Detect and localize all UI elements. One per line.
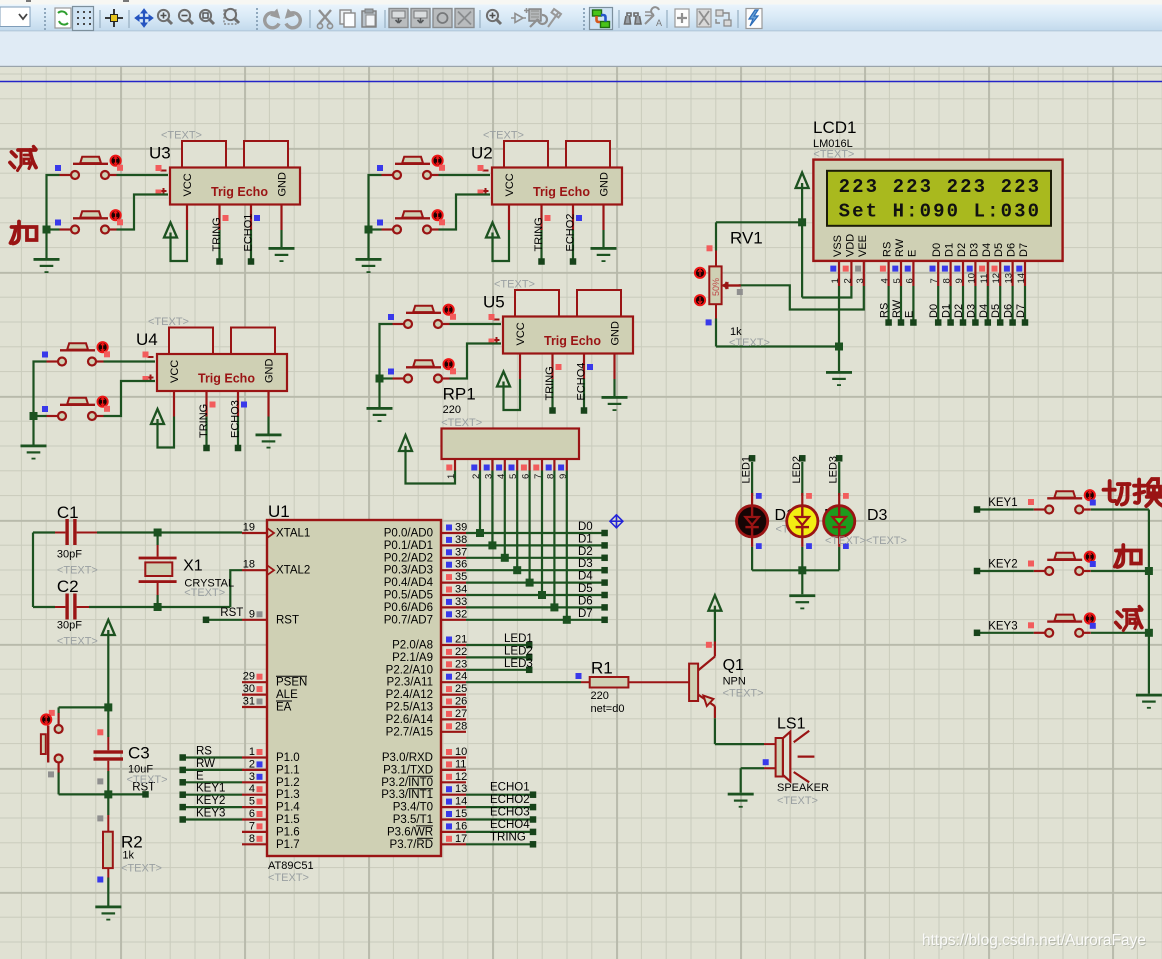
svg-text:P2.5/A13: P2.5/A13 [386, 702, 433, 714]
svg-text:5: 5 [892, 278, 903, 283]
svg-text:28: 28 [455, 720, 467, 732]
svg-text:D2: D2 [953, 304, 965, 318]
svg-text:30pF: 30pF [57, 549, 82, 561]
svg-text:LED2: LED2 [791, 456, 803, 484]
svg-text:11: 11 [979, 274, 990, 284]
svg-text:223 223 223 223: 223 223 223 223 [839, 176, 1042, 198]
svg-text:D5: D5 [990, 304, 1002, 318]
svg-text:TRING: TRING [544, 366, 556, 400]
svg-text:ECHO4: ECHO4 [490, 819, 530, 831]
svg-text:13: 13 [455, 783, 467, 795]
svg-text:PSEN: PSEN [276, 677, 307, 689]
svg-text:P3.6/WR: P3.6/WR [387, 826, 433, 838]
svg-text:RST: RST [220, 607, 243, 619]
svg-text:D6: D6 [1003, 304, 1015, 318]
svg-text:LED1: LED1 [504, 633, 533, 645]
svg-text:KEY1: KEY1 [196, 783, 225, 795]
svg-text:D4: D4 [978, 304, 990, 318]
svg-text:19: 19 [243, 522, 255, 534]
svg-text:29: 29 [243, 671, 255, 683]
svg-text:10: 10 [966, 273, 977, 284]
svg-text:Trig Echo: Trig Echo [198, 372, 255, 386]
svg-text:Trig Echo: Trig Echo [533, 185, 590, 199]
svg-text:D1: D1 [944, 243, 956, 257]
svg-text:E: E [906, 250, 918, 257]
svg-text:TRING: TRING [198, 404, 210, 438]
svg-text:1k: 1k [730, 326, 742, 338]
svg-text:6: 6 [904, 278, 915, 283]
svg-text:KEY2: KEY2 [196, 795, 225, 807]
svg-text:4: 4 [880, 278, 891, 283]
svg-text:P1.5: P1.5 [276, 814, 300, 826]
svg-text:RS: RS [882, 242, 894, 257]
svg-text:RST: RST [276, 614, 299, 626]
svg-text:R2: R2 [121, 833, 143, 852]
svg-text:R1: R1 [591, 659, 613, 678]
svg-text:P3.1/TXD: P3.1/TXD [383, 764, 433, 776]
svg-text:VCC: VCC [515, 322, 527, 345]
svg-text:P2.0/A8: P2.0/A8 [392, 640, 433, 652]
svg-text:2: 2 [249, 758, 255, 770]
svg-text:D6: D6 [578, 595, 593, 607]
svg-text:U2: U2 [471, 144, 493, 163]
svg-text:P0.5/AD5: P0.5/AD5 [384, 590, 433, 602]
svg-text:P0.7/AD7: P0.7/AD7 [384, 614, 433, 626]
svg-text:<TEXT>: <TEXT> [483, 130, 524, 142]
svg-text:9: 9 [954, 278, 965, 283]
svg-text:P1.1: P1.1 [276, 764, 300, 776]
svg-text:RW: RW [891, 299, 903, 318]
svg-text:RS: RS [879, 303, 891, 318]
svg-text:9: 9 [249, 608, 255, 620]
svg-text:RW: RW [894, 238, 906, 257]
svg-text:P1.2: P1.2 [276, 777, 300, 789]
svg-text:GND: GND [610, 321, 622, 346]
svg-text:4: 4 [249, 783, 255, 795]
svg-text:A: A [656, 18, 662, 28]
svg-text:net=d0: net=d0 [591, 703, 625, 715]
svg-text:VCC: VCC [169, 360, 181, 383]
svg-text:<TEXT>: <TEXT> [777, 795, 818, 807]
svg-text:D2: D2 [578, 546, 593, 558]
svg-text:D2: D2 [956, 243, 968, 257]
svg-text:P1.3: P1.3 [276, 789, 300, 801]
svg-text:26: 26 [455, 696, 467, 708]
svg-text:37: 37 [455, 546, 467, 558]
svg-text:25: 25 [455, 683, 467, 695]
svg-text:VEE: VEE [857, 235, 869, 257]
svg-text:<TEXT>: <TEXT> [161, 130, 202, 142]
svg-text:50%: 50% [711, 278, 721, 296]
svg-text:3: 3 [855, 278, 866, 283]
svg-text:XTAL1: XTAL1 [276, 528, 310, 540]
svg-text:23: 23 [455, 658, 467, 670]
svg-text:RW: RW [196, 758, 215, 770]
svg-text:ECHO3: ECHO3 [230, 400, 242, 438]
svg-text:P2.2/A10: P2.2/A10 [386, 664, 433, 676]
svg-text:VCC: VCC [182, 173, 194, 196]
svg-text:P0.3/AD3: P0.3/AD3 [384, 565, 433, 577]
svg-text:P1.6: P1.6 [276, 826, 300, 838]
svg-text:EA: EA [276, 702, 292, 714]
svg-text:220: 220 [591, 690, 609, 702]
svg-text:P1.4: P1.4 [276, 802, 300, 814]
svg-text:30: 30 [243, 683, 255, 695]
svg-text:<TEXT>: <TEXT> [441, 417, 482, 429]
svg-text:39: 39 [455, 522, 467, 534]
svg-text:LED3: LED3 [828, 456, 840, 484]
svg-text:D6: D6 [1006, 243, 1018, 257]
svg-text:36: 36 [455, 559, 467, 571]
svg-text:8: 8 [942, 278, 953, 283]
svg-text:X1: X1 [183, 558, 203, 575]
svg-text:P0.0/AD0: P0.0/AD0 [384, 528, 433, 540]
svg-text:GND: GND [599, 172, 611, 197]
svg-text:P0.6/AD6: P0.6/AD6 [384, 602, 433, 614]
svg-text:TRING: TRING [490, 831, 526, 843]
svg-text:P3.5/T1: P3.5/T1 [393, 814, 433, 826]
svg-text:P2.3/A11: P2.3/A11 [387, 677, 433, 689]
svg-text:LCD1: LCD1 [813, 118, 856, 137]
svg-text:5: 5 [249, 796, 255, 808]
svg-text:P0.1/AD1: P0.1/AD1 [384, 540, 433, 552]
svg-text:D1: D1 [941, 304, 953, 318]
svg-text:6: 6 [249, 808, 255, 820]
svg-text:RV1: RV1 [730, 229, 763, 248]
svg-text:220: 220 [443, 404, 461, 416]
svg-text:16: 16 [455, 820, 467, 832]
svg-text:27: 27 [455, 708, 467, 720]
svg-text:KEY3: KEY3 [988, 620, 1017, 632]
svg-text:<TEXT>: <TEXT> [57, 565, 98, 577]
svg-text:3: 3 [249, 771, 255, 783]
svg-text:ECHO3: ECHO3 [490, 807, 530, 819]
svg-text:15: 15 [455, 808, 467, 820]
svg-text:P3.0/RXD: P3.0/RXD [382, 752, 433, 764]
svg-text:38: 38 [455, 534, 467, 546]
svg-text:31: 31 [243, 696, 255, 708]
svg-text:24: 24 [455, 671, 467, 683]
svg-text:GND: GND [277, 172, 289, 197]
svg-text:35: 35 [455, 571, 467, 583]
svg-text:D3: D3 [867, 507, 888, 524]
svg-text:<TEXT>: <TEXT> [184, 587, 225, 599]
svg-text:ECHO2: ECHO2 [490, 794, 530, 806]
svg-text:P1.0: P1.0 [276, 752, 300, 764]
svg-text:SPEAKER: SPEAKER [777, 782, 829, 794]
svg-text:VSS: VSS [832, 235, 844, 257]
svg-text:21: 21 [455, 634, 467, 646]
svg-text:ALE: ALE [276, 689, 298, 701]
svg-text:D4: D4 [981, 243, 993, 257]
svg-text:P3.7/RD: P3.7/RD [390, 839, 433, 851]
svg-text:1: 1 [830, 278, 841, 283]
svg-text:E: E [196, 770, 204, 782]
svg-text:U4: U4 [136, 330, 158, 349]
svg-text:U5: U5 [483, 293, 505, 312]
svg-text:LED3: LED3 [504, 658, 533, 670]
svg-text:D7: D7 [578, 608, 593, 620]
svg-text:Trig Echo: Trig Echo [544, 334, 601, 348]
svg-text:<TEXT>: <TEXT> [723, 688, 764, 700]
svg-text:22: 22 [455, 646, 467, 658]
svg-text:D3: D3 [968, 243, 980, 257]
svg-text:<TEXT><TEXT>: <TEXT><TEXT> [825, 535, 907, 547]
svg-text:14: 14 [455, 796, 467, 808]
svg-text:C3: C3 [128, 744, 150, 763]
svg-text:ECHO2: ECHO2 [565, 214, 577, 252]
svg-text:P1.7: P1.7 [276, 839, 300, 851]
svg-text:AT89C51: AT89C51 [268, 860, 314, 872]
svg-text:KEY1: KEY1 [988, 497, 1017, 509]
svg-text:Q1: Q1 [723, 657, 744, 674]
svg-text:D5: D5 [578, 583, 593, 595]
svg-text:30pF: 30pF [57, 620, 82, 632]
svg-text:D3: D3 [965, 304, 977, 318]
svg-text:D5: D5 [993, 243, 1005, 257]
svg-text:D4: D4 [578, 571, 593, 583]
svg-text:E: E [903, 311, 915, 318]
svg-text:Set H:090 L:030: Set H:090 L:030 [839, 201, 1042, 223]
svg-text:18: 18 [243, 559, 255, 571]
svg-text:1: 1 [249, 746, 255, 758]
svg-text:RP1: RP1 [443, 385, 476, 404]
svg-text:<TEXT>: <TEXT> [127, 774, 168, 786]
svg-text:U3: U3 [149, 144, 171, 163]
svg-text:14: 14 [1016, 273, 1027, 284]
svg-text:12: 12 [455, 771, 467, 783]
svg-text:https://blog.csdn.net/AuroraFa: https://blog.csdn.net/AuroraFaye [922, 932, 1146, 949]
svg-text:ECHO4: ECHO4 [576, 363, 588, 401]
svg-text:P3.2/INT0: P3.2/INT0 [381, 777, 433, 789]
svg-text:10: 10 [455, 746, 467, 758]
svg-text:GND: GND [264, 359, 276, 384]
svg-text:LS1: LS1 [777, 715, 806, 732]
svg-text:2: 2 [842, 278, 853, 283]
svg-text:D1: D1 [578, 533, 593, 545]
svg-text:TRING: TRING [211, 217, 223, 251]
svg-text:KEY3: KEY3 [196, 808, 225, 820]
svg-text:12: 12 [991, 273, 1002, 284]
svg-text:17: 17 [455, 833, 467, 845]
svg-text:D0: D0 [578, 521, 593, 533]
svg-text:VCC: VCC [504, 173, 516, 196]
svg-text:13: 13 [1004, 273, 1015, 284]
svg-text:<TEXT>: <TEXT> [268, 872, 309, 884]
svg-text:VDD: VDD [844, 234, 856, 257]
svg-text:7: 7 [929, 278, 940, 283]
svg-text:NPN: NPN [723, 676, 746, 688]
svg-text:<TEXT>: <TEXT> [121, 862, 162, 874]
svg-text:P2.7/A15: P2.7/A15 [386, 726, 433, 738]
svg-text:KEY2: KEY2 [988, 559, 1017, 571]
svg-text:P2.4/A12: P2.4/A12 [386, 689, 433, 701]
svg-text:P0.2/AD2: P0.2/AD2 [384, 552, 433, 564]
svg-text:Trig Echo: Trig Echo [211, 185, 268, 199]
svg-text:1k: 1k [122, 850, 134, 862]
svg-text:ECHO1: ECHO1 [490, 782, 530, 794]
svg-text:P2.1/A9: P2.1/A9 [392, 652, 433, 664]
svg-text:D0: D0 [928, 304, 940, 318]
svg-text:34: 34 [455, 584, 467, 596]
svg-text:ECHO1: ECHO1 [243, 214, 255, 252]
svg-text:P3.3/INT1: P3.3/INT1 [381, 789, 433, 801]
svg-text:XTAL2: XTAL2 [276, 565, 310, 577]
svg-text:D3: D3 [578, 558, 593, 570]
svg-text:7: 7 [249, 820, 255, 832]
svg-text:<TEXT>: <TEXT> [148, 316, 189, 328]
svg-text:11: 11 [455, 758, 466, 770]
svg-text:C2: C2 [57, 577, 79, 596]
svg-text:8: 8 [249, 833, 255, 845]
svg-text:D0: D0 [931, 243, 943, 257]
svg-text:32: 32 [455, 608, 467, 620]
svg-text:<TEXT>: <TEXT> [729, 337, 770, 349]
svg-text:U1: U1 [268, 502, 290, 521]
svg-text:P3.4/T0: P3.4/T0 [393, 802, 433, 814]
svg-text:P2.6/A14: P2.6/A14 [386, 714, 434, 726]
svg-text:33: 33 [455, 596, 467, 608]
svg-text:D7: D7 [1015, 304, 1027, 318]
svg-text:<TEXT>: <TEXT> [57, 636, 98, 648]
svg-text:D7: D7 [1018, 243, 1030, 257]
svg-text:TRING: TRING [533, 217, 545, 251]
svg-text:LED2: LED2 [504, 645, 533, 657]
svg-text:LED1: LED1 [741, 456, 753, 484]
svg-text:P0.4/AD4: P0.4/AD4 [384, 577, 434, 589]
svg-text:<TEXT>: <TEXT> [494, 279, 535, 291]
svg-text:RS: RS [196, 746, 212, 758]
